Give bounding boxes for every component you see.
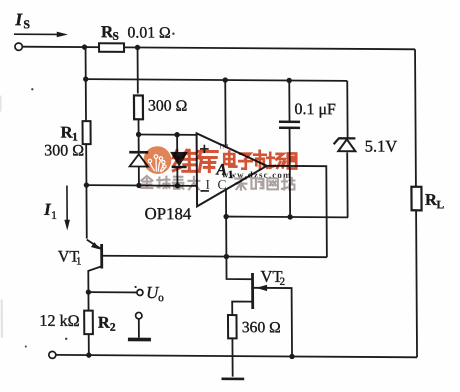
svg-text:360 Ω: 360 Ω (242, 319, 281, 336)
svg-text:0.01 Ω: 0.01 Ω (127, 24, 170, 41)
svg-text:300 Ω: 300 Ω (44, 142, 84, 159)
svg-text:OP184: OP184 (145, 204, 192, 223)
svg-text:300 Ω: 300 Ω (148, 98, 188, 115)
svg-text:1: 1 (51, 210, 57, 222)
svg-text:I: I (205, 177, 210, 192)
svg-text:C: C (217, 177, 226, 192)
svg-text:5.1V: 5.1V (365, 136, 398, 155)
svg-text:0.1 μF: 0.1 μF (294, 101, 336, 118)
svg-text:TM: TM (219, 143, 229, 150)
svg-text:12 kΩ: 12 kΩ (39, 312, 79, 330)
svg-text:1: 1 (76, 256, 82, 268)
svg-text:I: I (14, 9, 23, 29)
svg-text:o: o (158, 292, 164, 304)
svg-text:2: 2 (110, 322, 116, 334)
svg-text:2: 2 (280, 276, 286, 288)
svg-text:S: S (112, 31, 118, 43)
svg-text:S: S (23, 17, 30, 31)
svg-text:L: L (437, 199, 445, 211)
